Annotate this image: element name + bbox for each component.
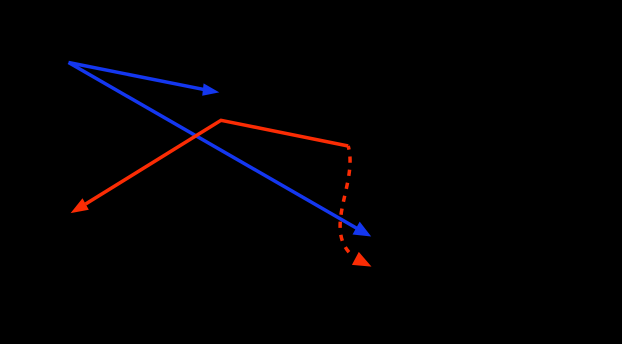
blue arrow long (vertex to lower-right head) — [69, 63, 372, 237]
red arrow solid (left head, up over vertex, to corner) — [71, 120, 349, 213]
blue arrow short (upper, vertex to right head) — [69, 63, 220, 96]
red dashed connector (corner curving down to bottom head) — [340, 146, 371, 267]
